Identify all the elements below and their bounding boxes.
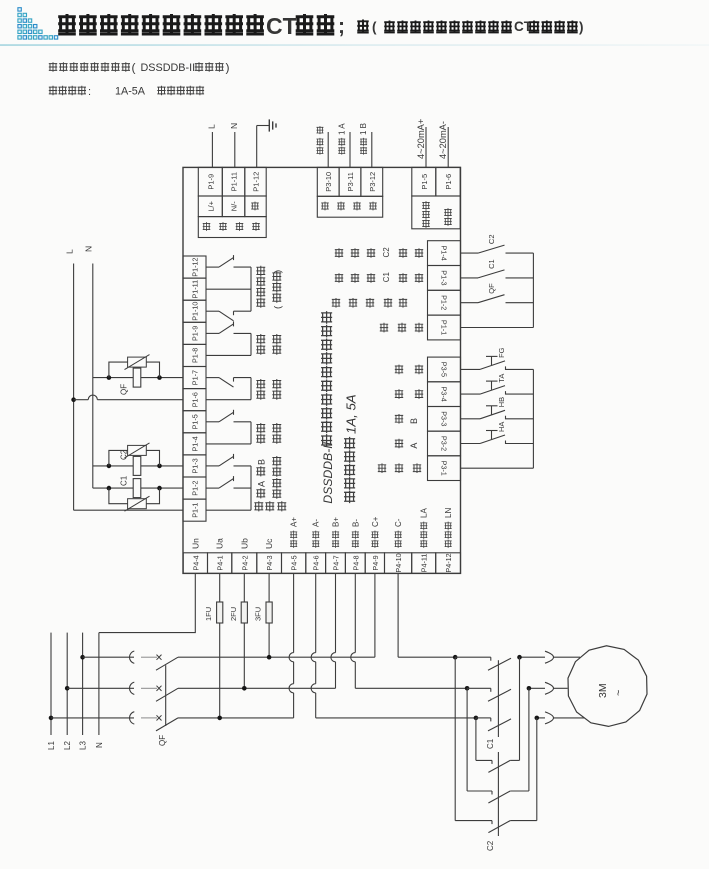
wire current B+ P4-7 to L2 — [331, 573, 336, 688]
junction dot L2 tap — [65, 686, 70, 691]
contactor coil C1 with surge suppressor — [107, 475, 162, 511]
svg-text:): ) — [226, 61, 230, 75]
label current A- — [312, 519, 321, 548]
wire current A+ P4-5 to L1 — [289, 573, 294, 718]
svg-text:P1-2: P1-2 — [191, 481, 200, 496]
wire upstream tap L1 down to C2 — [475, 718, 477, 761]
svg-text:P1-10: P1-10 — [191, 302, 200, 321]
subtitle line 1: typical wiring diagram note (DSSDDB-II) — [49, 61, 230, 75]
control line L vertical — [65, 249, 75, 510]
circuit breaker QF pole L2 — [67, 682, 178, 701]
svg-text:P1-5: P1-5 — [420, 174, 429, 190]
svg-text:P1-7: P1-7 — [191, 370, 200, 385]
wire neutral from N to P4-4 Un — [99, 573, 195, 632]
svg-text:P4-1: P4-1 — [216, 555, 225, 570]
svg-text:3M: 3M — [597, 683, 609, 698]
label stop — [395, 389, 423, 399]
svg-text:P1-4: P1-4 — [440, 246, 449, 261]
svg-text:P1-3: P1-3 — [440, 270, 449, 285]
svg-text:~: ~ — [613, 690, 625, 696]
svg-text::: : — [88, 86, 91, 98]
svg-text:L: L — [65, 249, 75, 254]
button common bus — [532, 369, 534, 468]
label Un — [190, 538, 200, 549]
circuit breaker QF pole L1 — [51, 712, 178, 731]
wire N to P1-2 via C1 coil branch — [93, 487, 183, 489]
connector L3 to motor — [545, 651, 580, 663]
wire N supply to P1-11 — [229, 123, 239, 168]
label current C- — [394, 518, 403, 548]
svg-text:N: N — [84, 246, 94, 252]
earth ground symbol on P1-12 — [257, 119, 276, 167]
svg-text:): ) — [273, 270, 284, 273]
label Ub — [239, 538, 249, 549]
svg-text:N: N — [229, 123, 239, 129]
breaker trip coil QF with surge suppressor — [107, 355, 162, 395]
svg-text:L1: L1 — [47, 741, 56, 750]
label common terminal — [380, 323, 423, 333]
fuse 2FU — [229, 573, 248, 690]
supply vertical line N — [95, 633, 104, 748]
svg-text:(: ( — [372, 20, 377, 35]
svg-text:P1-1: P1-1 — [440, 320, 449, 335]
contactor C2 pole 1 — [476, 760, 520, 772]
svg-text:C2: C2 — [487, 235, 496, 245]
svg-text:L/+: L/+ — [207, 200, 216, 211]
label current B+ — [332, 517, 341, 548]
svg-text:P3-11: P3-11 — [346, 172, 355, 191]
status input contact C1 on P1-3 — [461, 259, 534, 278]
svg-text:QF: QF — [158, 735, 167, 746]
svg-text:P4-6: P4-6 — [312, 555, 321, 570]
terminal block analog output P1-5 P1-6 — [412, 167, 460, 228]
svg-text:P4-5: P4-5 — [290, 555, 299, 570]
svg-text:B: B — [409, 418, 419, 424]
label Ua — [215, 538, 225, 549]
reset button FG on P3-5 — [461, 347, 534, 369]
svg-text:N/-: N/- — [230, 201, 239, 212]
svg-text:): ) — [579, 20, 584, 35]
svg-text:B-: B- — [351, 519, 360, 527]
supply vertical line L2 — [63, 633, 72, 750]
svg-text:P3-4: P3-4 — [440, 387, 449, 402]
contactor C1 pole L1 — [476, 716, 545, 731]
teal divider rule — [0, 44, 709, 46]
relay start A B output contacts P1-3 P1-2 P1-1 — [206, 454, 286, 511]
svg-text:C2: C2 — [382, 247, 391, 258]
svg-text:P3-2: P3-2 — [440, 436, 449, 451]
svg-text:P1-6: P1-6 — [191, 392, 200, 407]
svg-text:B: B — [257, 459, 267, 465]
svg-text:HA: HA — [497, 422, 506, 432]
svg-text:C2: C2 — [120, 449, 129, 460]
subtitle line 2: current rating 1A-5A — [49, 86, 204, 99]
wire N to P1-7 via QF coil branch — [93, 377, 183, 379]
wire current C- P4-10 to L3 — [397, 573, 399, 657]
svg-text:L3: L3 — [79, 741, 88, 750]
svg-text:C1: C1 — [487, 259, 496, 269]
wire L supply to P1-9 — [207, 124, 217, 167]
header pixel-squares logo — [18, 8, 58, 39]
svg-text:C2: C2 — [486, 840, 495, 851]
fuse 1FU — [204, 573, 223, 720]
wire phase L2 run — [178, 687, 467, 689]
svg-text:CT: CT — [266, 13, 297, 39]
wire upstream tap L3 down to C2 — [454, 657, 456, 820]
svg-text:L: L — [207, 124, 217, 129]
terminal column P1-4 to P1-1 right side — [428, 241, 461, 340]
svg-text:1 B: 1 B — [359, 123, 368, 135]
wire current C+ P4-9 to L3 — [374, 573, 376, 657]
svg-text:P1-4: P1-4 — [191, 436, 200, 451]
label Uc — [264, 538, 274, 549]
label current C+ — [371, 516, 380, 548]
svg-text:FG: FG — [497, 347, 506, 358]
svg-text:A: A — [409, 443, 419, 449]
svg-text:A+: A+ — [290, 517, 299, 527]
svg-text:QF: QF — [487, 283, 496, 294]
svg-text:C1: C1 — [382, 272, 391, 283]
label start B — [395, 414, 419, 424]
wire upstream tap L2 down to C2 — [466, 688, 468, 791]
svg-text:P1-2: P1-2 — [440, 295, 449, 310]
status input contact QF on P1-2 — [461, 283, 534, 303]
svg-text:P4-3: P4-3 — [265, 555, 274, 570]
breaker QF linkage and label — [158, 665, 167, 746]
svg-text:P1-9: P1-9 — [191, 326, 200, 341]
contactor C1 linkage and label — [486, 660, 498, 749]
svg-text:DSSDDB-II: DSSDDB-II — [141, 62, 196, 74]
status input contact C2 on P1-4 — [461, 235, 534, 254]
svg-text:TA: TA — [497, 374, 506, 383]
label breaker status — [332, 298, 407, 308]
wire comm A to P3-11 — [337, 123, 350, 168]
svg-text:P3-1: P3-1 — [440, 461, 449, 476]
label contactor C2 status — [335, 247, 423, 258]
svg-text:1A-5A: 1A-5A — [115, 86, 146, 98]
control line N vertical — [84, 246, 94, 488]
svg-text:P3-12: P3-12 — [368, 172, 377, 192]
relay trip output contacts P1-7 P1-6 — [206, 378, 281, 400]
connector L1 to motor — [545, 712, 584, 724]
svg-text:P1-5: P1-5 — [191, 414, 200, 429]
svg-text:P1-12: P1-12 — [191, 258, 200, 277]
label current B- — [351, 519, 360, 548]
svg-text:4~20mA+: 4~20mA+ — [416, 119, 426, 159]
svg-text:P4-11: P4-11 — [420, 554, 429, 573]
wire current A- P4-6 to L1 — [311, 573, 316, 718]
svg-text:1FU: 1FU — [204, 607, 213, 621]
terminal column P1-1 to P1-12 left side — [183, 256, 206, 521]
svg-text:N: N — [95, 742, 104, 748]
start B button HB on P3-3 — [461, 397, 534, 419]
svg-text:Un: Un — [190, 538, 200, 549]
device current rating text 1A 5A — [344, 394, 359, 503]
svg-text:P1-11: P1-11 — [230, 172, 239, 191]
svg-text:P1-12: P1-12 — [252, 172, 261, 192]
contactor C2 pole 2 — [467, 791, 529, 803]
junction dots upstream taps — [453, 655, 478, 720]
svg-text:HB: HB — [497, 397, 506, 407]
wire downstream L2 down to C2 — [528, 688, 530, 791]
label leakage current LA — [420, 508, 429, 548]
svg-text:P1-3: P1-3 — [191, 458, 200, 473]
label common terminal P3-1 — [378, 463, 421, 473]
connector L2 to motor — [545, 682, 568, 694]
svg-text:P1-9: P1-9 — [206, 174, 215, 190]
svg-text:1 A: 1 A — [337, 123, 346, 135]
svg-text:A: A — [257, 481, 267, 487]
status common wire P1-1 — [461, 327, 534, 329]
svg-text:LN: LN — [444, 508, 453, 518]
contactor C2 linkage and label — [486, 752, 498, 851]
relay trip output (signal) contacts P1-12 P1-11 P1-10 — [206, 255, 284, 321]
label contactor C1 status — [335, 272, 423, 283]
svg-text:B+: B+ — [332, 517, 341, 527]
supply vertical line L3 — [79, 633, 88, 750]
svg-text:P3-5: P3-5 — [440, 362, 449, 377]
label leakage current LN — [444, 508, 453, 548]
svg-text:3FU: 3FU — [254, 607, 263, 621]
svg-text:C-: C- — [394, 518, 403, 527]
svg-text:P4-7: P4-7 — [332, 555, 341, 570]
wire L to P1-6 trip common with hop over N — [71, 395, 183, 402]
svg-text:P3-3: P3-3 — [440, 411, 449, 426]
terminal column P3-5 to P3-1 right side — [428, 357, 461, 480]
supply vertical line L1 — [47, 633, 56, 750]
wire downstream L3 down to C2 — [519, 657, 521, 760]
title text: motor protection CT accessory — [58, 13, 583, 39]
motor 3M — [568, 646, 647, 727]
contactor C2 pole 3 — [455, 821, 537, 833]
svg-text:P3-10: P3-10 — [324, 172, 333, 192]
wire current B- P4-8 to L2 — [351, 573, 356, 688]
svg-text:P1-6: P1-6 — [444, 174, 453, 190]
wire 4-20mA+ to P1-5 — [416, 119, 426, 168]
circuit breaker QF pole L3 — [83, 651, 178, 670]
fuse 3FU — [254, 573, 273, 659]
svg-text:C+: C+ — [371, 516, 380, 527]
svg-text:Ua: Ua — [215, 538, 225, 549]
contactor C1 pole L2 — [467, 686, 545, 701]
button common wire P3-1 — [461, 467, 534, 469]
wire N to P1-3 via C2 coil branch — [93, 465, 183, 467]
wire comm B to P3-12 — [359, 123, 372, 167]
svg-text:P1-11: P1-11 — [191, 280, 200, 299]
svg-text:Uc: Uc — [264, 538, 274, 549]
svg-text:;: ; — [338, 15, 345, 38]
svg-text:LA: LA — [420, 508, 429, 518]
svg-text:P4-8: P4-8 — [351, 555, 360, 570]
status inputs common bus — [532, 253, 534, 327]
contactor C1 pole L3 — [455, 655, 545, 670]
relay alarm output contacts P1-9 P1-8 — [206, 321, 281, 355]
svg-text:Ub: Ub — [239, 538, 249, 549]
terminal block communication P3-10 P3-11 P3-12 — [317, 167, 382, 217]
svg-text:C1: C1 — [120, 475, 129, 486]
wire phase L3 run — [178, 656, 455, 658]
wire L to P1-1 start common — [74, 509, 183, 511]
label reset FG — [395, 365, 423, 375]
svg-text:1A, 5A: 1A, 5A — [344, 394, 359, 434]
relay stop output contacts P1-5 P1-4 — [206, 410, 281, 444]
svg-text:P4-2: P4-2 — [240, 555, 249, 570]
svg-text:4~20mA-: 4~20mA- — [438, 121, 448, 159]
wire downstream L1 down to C2 — [536, 718, 538, 821]
svg-text:(: ( — [132, 61, 136, 75]
stop button TA on P3-4 — [461, 374, 534, 395]
terminal row P4 bottom side — [183, 553, 460, 574]
contactor coil C2 with surge suppressor — [107, 443, 162, 476]
device model text DSSDDB-II low-voltage motor protection unit — [321, 311, 335, 504]
svg-text:A-: A- — [312, 519, 321, 527]
svg-text:2FU: 2FU — [229, 607, 238, 621]
svg-text:P4-9: P4-9 — [371, 555, 380, 570]
svg-text:C1: C1 — [486, 738, 495, 749]
device DSSDDB-II main enclosure box — [183, 167, 461, 573]
svg-text:P1-1: P1-1 — [191, 503, 200, 518]
label current A+ — [290, 517, 299, 548]
label start A — [395, 439, 419, 449]
svg-text:P4-12: P4-12 — [444, 553, 453, 572]
svg-text:QF: QF — [120, 384, 129, 395]
wire 4-20mA- to P1-6 — [438, 121, 448, 167]
svg-text:P4-4: P4-4 — [191, 555, 200, 570]
svg-text:P1-8: P1-8 — [191, 348, 200, 363]
svg-text:DSSDDB-II: DSSDDB-II — [321, 441, 335, 503]
wire phase L1 run — [178, 717, 476, 719]
terminal block power input P1-9 P1-11 P1-12 — [198, 167, 266, 237]
junction dot L1 tap — [49, 716, 54, 721]
wire comm ground to P3-10 — [316, 126, 328, 167]
svg-text:L2: L2 — [63, 741, 72, 750]
start A button HA on P3-2 — [461, 422, 534, 444]
svg-text:P4-10: P4-10 — [394, 553, 403, 572]
junction dot L3 tap — [80, 655, 85, 660]
